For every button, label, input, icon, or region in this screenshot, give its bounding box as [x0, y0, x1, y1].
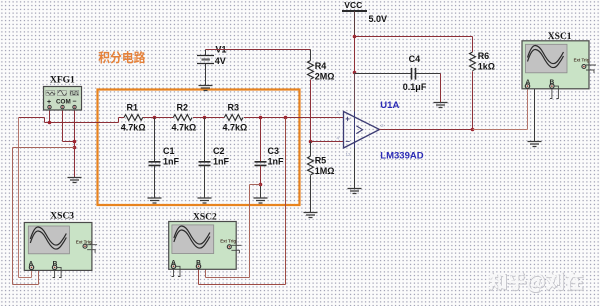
battery V1	[197, 45, 227, 86]
svg-text:−: −	[345, 137, 350, 146]
wire C4 node to op-amp V+ pin	[354, 73, 356, 112]
node after R3	[259, 116, 263, 120]
orange region box 积分电路	[98, 51, 300, 205]
wire XSC1 A reference to ground	[530, 88, 535, 142]
wire XFG1 + output to R1	[19, 109, 119, 123]
capacitor C3	[255, 118, 285, 198]
node divider	[309, 140, 313, 144]
resistor R4	[308, 50, 335, 82]
svg-text:C1: C1	[163, 146, 175, 156]
svg-text:C2: C2	[213, 146, 225, 156]
svg-text:12: 12	[346, 152, 352, 157]
svg-text:R3: R3	[228, 103, 240, 113]
wire VCC junction down to C4 node	[354, 37, 356, 73]
ground below C4	[434, 103, 448, 108]
resistor R2	[172, 103, 197, 133]
resistor R3	[223, 103, 248, 133]
svg-text:0.1μF: 0.1μF	[403, 82, 427, 92]
svg-text:2MΩ: 2MΩ	[315, 72, 335, 82]
svg-text:Ext Trig: Ext Trig	[76, 240, 92, 245]
svg-text:XSC3: XSC3	[50, 212, 74, 222]
node C4 tap	[353, 71, 357, 75]
svg-text:Ext Trig: Ext Trig	[220, 239, 236, 244]
wire V1 to R4	[206, 49, 311, 51]
node ladder output tap	[284, 116, 288, 120]
svg-text:R5: R5	[315, 156, 327, 166]
ground below V1	[199, 86, 213, 91]
op-amp U1A	[337, 100, 424, 189]
capacitor C4	[355, 54, 441, 92]
svg-text:4.7kΩ: 4.7kΩ	[172, 123, 197, 133]
svg-text:4.7kΩ: 4.7kΩ	[223, 123, 248, 133]
svg-text:5.0V: 5.0V	[369, 14, 388, 24]
svg-text:C4: C4	[409, 54, 421, 64]
svg-text:R2: R2	[177, 103, 189, 113]
svg-text:U1A: U1A	[380, 100, 399, 111]
svg-text:1nF: 1nF	[213, 157, 230, 167]
svg-text:1MΩ: 1MΩ	[315, 166, 335, 176]
ground below XSC1	[528, 142, 542, 147]
ground below op-amp	[348, 189, 362, 194]
svg-text:−: −	[72, 99, 76, 106]
svg-text:Ext Trig: Ext Trig	[574, 58, 590, 63]
node VCC junction	[353, 35, 357, 39]
resistor R6	[470, 51, 495, 130]
svg-text:XFG1: XFG1	[50, 76, 75, 86]
capacitor C2	[199, 118, 230, 198]
ground below C3	[254, 198, 268, 203]
svg-text:R4: R4	[315, 61, 327, 71]
ground below C2	[198, 198, 212, 203]
ground below R5	[304, 213, 318, 218]
wire divider node to op-amp minus input	[311, 141, 344, 143]
wire C4 to ground	[440, 74, 442, 103]
VCC rail symbol	[342, 0, 387, 24]
wire ladder output to XSC2 B	[199, 118, 286, 285]
oscilloscope XSC2	[169, 213, 242, 277]
svg-text:+: +	[345, 115, 350, 124]
svg-text:R1: R1	[127, 103, 139, 113]
wire output to XSC1 A	[473, 90, 528, 130]
wire R4 bottom to divider node	[310, 80, 312, 142]
node COM/minus junction	[73, 140, 77, 144]
svg-text:LM339AD: LM339AD	[380, 151, 423, 162]
wire XFG1 - to XSC3 A reference (outer left loop)	[13, 148, 75, 285]
node XFG+ junction	[48, 121, 52, 125]
node after R1	[153, 116, 157, 120]
node minus tap junction	[73, 146, 77, 150]
wire XFG1 COM to minus pin	[63, 109, 75, 178]
wire ladder main line	[119, 117, 344, 119]
oscilloscope XSC1	[522, 32, 596, 99]
svg-text:1kΩ: 1kΩ	[478, 62, 495, 72]
resistor R1	[121, 103, 146, 133]
svg-text:COM: COM	[56, 99, 71, 106]
svg-text:4.7kΩ: 4.7kΩ	[121, 123, 146, 133]
watermark 知乎@刘在	[489, 273, 583, 293]
svg-text:C3: C3	[268, 146, 280, 156]
svg-text:R6: R6	[478, 51, 490, 61]
svg-text:1nF: 1nF	[268, 157, 285, 167]
wire op-amp output	[380, 129, 473, 131]
capacitor C1	[149, 118, 180, 198]
wire VCC to R6 (top rail)	[355, 37, 473, 53]
svg-text:VCC: VCC	[344, 0, 362, 10]
XFG1 function generator	[44, 76, 82, 111]
node C3 ground tap	[259, 183, 263, 187]
svg-text:1nF: 1nF	[163, 157, 180, 167]
svg-text:4V: 4V	[215, 56, 226, 66]
ground below XFG1	[68, 178, 82, 183]
ground below C1	[148, 198, 162, 203]
wire VCC down	[354, 11, 356, 37]
wire C3 ground tap to XSC2 B reference	[201, 185, 261, 278]
wire XFG1 + to XSC3 A (long left loop)	[19, 118, 32, 278]
resistor R5	[308, 142, 335, 213]
node after R2	[203, 116, 207, 120]
oscilloscope XSC3	[24, 212, 97, 278]
node output junction	[471, 128, 475, 132]
